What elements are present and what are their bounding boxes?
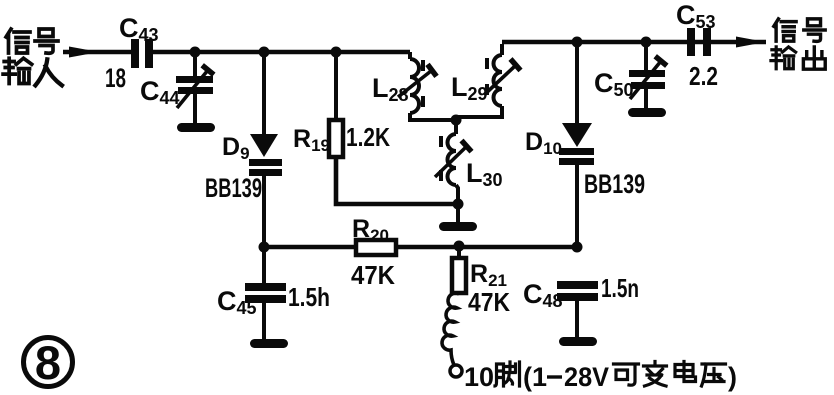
inductor L28 (adjustable) (410, 52, 423, 113)
output arrowhead (736, 37, 766, 48)
wire D9 to bottom rail (262, 176, 266, 249)
ground (L30) (439, 222, 477, 231)
capacitor C43 (131, 39, 153, 68)
wire C45 stub (262, 247, 266, 284)
svg-text:1.2K: 1.2K (346, 122, 390, 152)
svg-text:8: 8 (35, 336, 61, 389)
ground (C48) (559, 337, 597, 346)
wire D10 to bottom rail (575, 165, 579, 249)
node D junction dot (tank) (451, 115, 462, 126)
capacitor C48 (557, 281, 598, 338)
resistor R21 (452, 258, 466, 293)
diode D9 varactor (249, 134, 282, 176)
input arrowhead (69, 47, 99, 58)
svg-text:1.5h: 1.5h (288, 282, 330, 312)
capacitor C50 (trimmer) (629, 56, 667, 109)
node F junction dot (D10 top) (572, 37, 583, 48)
inductor L30 (adjustable) (441, 121, 456, 185)
svg-text:1.5n: 1.5n (601, 273, 639, 303)
node G junction dot (C50 top) (641, 37, 652, 48)
svg-text:BB139: BB139 (205, 173, 262, 203)
wire top-right (502, 40, 766, 45)
capacitor C44 (trimmer) (176, 65, 214, 124)
wire L28 bottom (410, 113, 456, 120)
diode D10 varactor (559, 123, 594, 165)
ground (C50) (628, 108, 666, 117)
terminal pin 10 circle (450, 365, 462, 377)
resistor R19 (329, 120, 343, 157)
figure number 8 badge (24, 336, 73, 389)
wire L29 bottom (458, 106, 502, 121)
wire D10 anode (575, 42, 579, 125)
node IN label 信号输入 (3, 29, 62, 85)
node J junction dot (C48 top) (572, 242, 583, 253)
node H junction dot (C45 top) (259, 242, 270, 253)
svg-text:47K: 47K (468, 287, 510, 317)
wire C44 stub (193, 52, 197, 77)
wire R19 bottom to L30 node (336, 157, 458, 204)
wire R21 top (457, 247, 461, 259)
wire R19 top (334, 52, 338, 121)
svg-text:28V: 28V (564, 362, 609, 392)
capacitor C45 (245, 283, 286, 340)
wire input (63, 50, 131, 55)
svg-text:10: 10 (464, 362, 494, 392)
node OUT label 信号输出 (771, 19, 825, 69)
svg-text:18: 18 (105, 63, 126, 93)
resistor R20 (356, 240, 396, 255)
svg-text:47K: 47K (351, 260, 395, 290)
capacitor C53 (687, 28, 711, 56)
wire D9 anode (262, 52, 266, 136)
node B junction dot (259, 47, 270, 58)
svg-text:2.2: 2.2 (689, 61, 718, 91)
inductor L29 (adjustable) (487, 44, 502, 106)
label 10脚(1-28V可变电压) (464, 362, 737, 393)
node A junction dot (190, 47, 201, 58)
wire C50 stub (644, 42, 648, 71)
wire coil lead to pin 10 (442, 293, 459, 365)
svg-text:): ) (728, 362, 737, 392)
wire bottom rail (264, 245, 577, 250)
node E junction dot (L30 bottom) (453, 199, 464, 210)
wire top-left (153, 50, 410, 55)
ground (C44) (177, 123, 215, 132)
svg-text:(1: (1 (523, 362, 547, 392)
node I junction dot (R21 top) (454, 241, 465, 252)
wire L30 bottom (456, 185, 458, 222)
node C junction dot (R19 top) (331, 47, 342, 58)
ground (C45) (250, 339, 288, 348)
svg-text:BB139: BB139 (584, 169, 645, 199)
